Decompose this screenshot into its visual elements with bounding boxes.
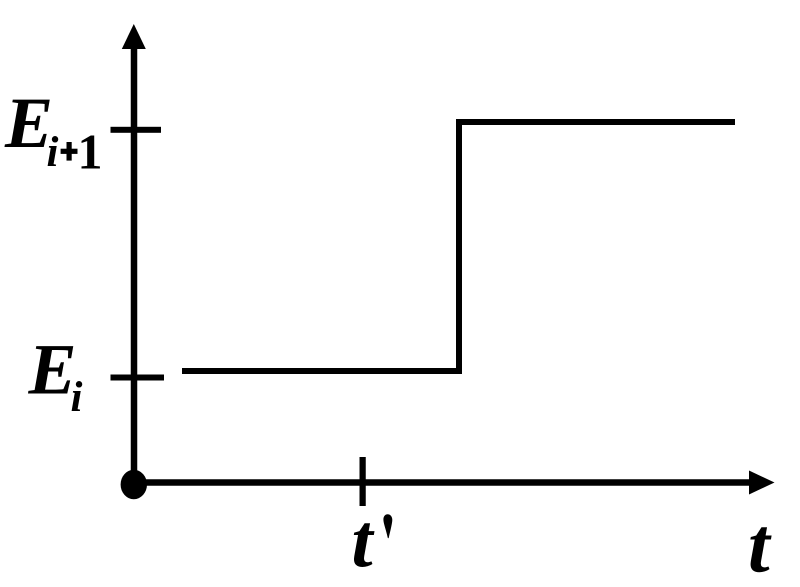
x-axis arrowhead [749, 471, 775, 495]
svg-text:t: t [352, 499, 376, 583]
tick Ei+1 on y-axis [111, 127, 162, 133]
y-axis [131, 46, 138, 484]
tick Ei on y-axis [111, 375, 165, 381]
svg-text:t: t [748, 502, 772, 587]
svg-text:1: 1 [78, 124, 103, 180]
x-axis [134, 479, 750, 486]
origin dot [121, 470, 147, 499]
tick t' on x-axis [360, 457, 366, 506]
step function trace [182, 122, 735, 371]
svg-text:E: E [28, 330, 77, 410]
svg-text:i: i [47, 129, 59, 176]
svg-text:i: i [71, 374, 83, 421]
y-axis arrowhead [122, 24, 146, 49]
